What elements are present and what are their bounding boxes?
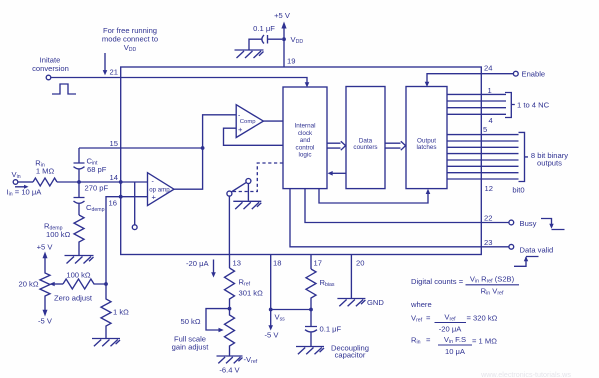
- svg-text:Rin Vref: Rin Vref: [481, 287, 504, 297]
- wire switch A to pin 13: [228, 196, 230, 254]
- svg-text:100 kΩ: 100 kΩ: [46, 230, 71, 239]
- svg-text:1: 1: [488, 86, 492, 95]
- arrowhead Iin: [24, 185, 29, 189]
- svg-text:0.1 μF: 0.1 μF: [253, 24, 275, 33]
- svg-text:+: +: [238, 125, 243, 134]
- arrowhead -5V pot: [43, 310, 48, 317]
- svg-text:Digital counts =: Digital counts =: [411, 277, 464, 286]
- wire pin 15 integrator feedback: [79, 147, 203, 149]
- svg-text:5: 5: [483, 125, 487, 134]
- svg-text:-5 V: -5 V: [38, 317, 53, 326]
- svg-text:18: 18: [273, 259, 281, 268]
- arrowhead -20uA: [211, 272, 216, 277]
- arrow Iin: [15, 186, 24, 188]
- wire busy external: [481, 222, 509, 224]
- wire pin 16 to op-amp plus: [121, 196, 148, 198]
- svg-text:logic: logic: [299, 152, 312, 159]
- block U3 output latches: [406, 87, 447, 189]
- svg-text:23: 23: [484, 238, 492, 247]
- svg-text:21: 21: [110, 68, 118, 77]
- svg-text:20 kΩ: 20 kΩ: [18, 280, 38, 289]
- node VDD top: [282, 37, 286, 41]
- node pin 16: [119, 195, 123, 199]
- svg-text:Vref: Vref: [411, 314, 423, 324]
- resistor Rbias: [306, 269, 316, 310]
- svg-text:Iin = 10 μA: Iin = 10 μA: [7, 188, 43, 198]
- ground 1k: [92, 339, 120, 347]
- node Vss: [269, 308, 273, 312]
- svg-text:Rin: Rin: [411, 336, 421, 346]
- pulse waveform symbol: [52, 84, 76, 94]
- bus arrow U2 to U3: [385, 141, 406, 150]
- waveform data valid rising edge: [514, 257, 539, 267]
- arrowhead +5V pot: [43, 252, 48, 259]
- wire counters to clock arrow: [331, 172, 346, 174]
- wire data valid external: [481, 246, 509, 248]
- wire comp plus input: [224, 128, 284, 145]
- ground 50k pot: [217, 356, 243, 363]
- svg-text:Rbias: Rbias: [320, 278, 335, 288]
- potentiometer 20k body: [40, 258, 50, 311]
- bus arrow U1 to U2: [327, 141, 346, 150]
- svg-text:-: -: [152, 179, 155, 186]
- svg-text:13: 13: [233, 259, 241, 268]
- resistor Rref 301k: [225, 268, 235, 309]
- svg-text:14: 14: [110, 173, 118, 182]
- svg-text:latches: latches: [417, 144, 437, 151]
- arrowhead latch into U3 bottom: [426, 189, 431, 194]
- svg-text:VDD: VDD: [124, 43, 137, 53]
- ground switch: [233, 201, 261, 209]
- svg-text:Vref: Vref: [444, 313, 456, 323]
- svg-text:22: 22: [484, 214, 492, 223]
- svg-text:17: 17: [314, 259, 322, 268]
- svg-text:= 1 MΩ: = 1 MΩ: [472, 337, 497, 346]
- svg-text:-20 μA: -20 μA: [186, 259, 209, 268]
- wire +5V supply to pin 19: [283, 26, 285, 67]
- svg-text:4: 4: [489, 116, 493, 125]
- svg-text:Internal: Internal: [294, 123, 315, 130]
- wire pin 20 GND: [350, 255, 352, 299]
- node A input: [77, 180, 81, 184]
- svg-text:1 MΩ: 1 MΩ: [36, 167, 55, 176]
- wire switch B to ground: [247, 184, 249, 201]
- svg-text:-5 V: -5 V: [265, 331, 280, 340]
- block U2 data counters: [346, 87, 385, 189]
- terminal below op-amp: [132, 225, 137, 230]
- arrowhead 50k wiper: [219, 328, 224, 333]
- node op-amp feedback: [201, 146, 205, 150]
- svg-text:Rref: Rref: [239, 278, 251, 288]
- svg-text:15: 15: [110, 139, 118, 148]
- svg-text:clock: clock: [298, 130, 313, 137]
- wire latch enable feedback: [319, 189, 428, 203]
- svg-text:Cdemp: Cdemp: [86, 203, 105, 213]
- wire test terminal drop: [134, 182, 136, 225]
- svg-text:-20 μA: -20 μA: [439, 325, 462, 334]
- wire busy internal pin 22: [305, 189, 481, 223]
- wire Vin input: [18, 181, 33, 183]
- wire Rin to pin 14: [57, 181, 148, 183]
- svg-text:16: 16: [109, 199, 117, 208]
- svg-text:Zero adjust: Zero adjust: [54, 294, 93, 303]
- svg-text:outputs: outputs: [537, 159, 562, 168]
- bracket 8 bit binary outputs: [519, 132, 529, 181]
- resistor Rin 1M: [33, 178, 57, 186]
- svg-text:Vin Rref (S2B): Vin Rref (S2B): [470, 275, 515, 285]
- resistor Rdemp 100k: [74, 215, 84, 255]
- svg-text:24: 24: [484, 64, 492, 73]
- svg-text:0.1 μF: 0.1 μF: [320, 325, 342, 334]
- chip outline box: [121, 67, 482, 255]
- terminal Initiate conversion: [46, 75, 51, 80]
- wire pin21 initiate conversion: [51, 78, 307, 85]
- wire 50k wiper loop: [206, 309, 230, 330]
- svg-text:68 pF: 68 pF: [87, 165, 107, 174]
- wire enable internal to latches: [427, 74, 481, 85]
- svg-text:Vin F.S: Vin F.S: [444, 335, 466, 345]
- wire comp minus input: [174, 115, 236, 189]
- svg-text:GND: GND: [367, 298, 384, 307]
- svg-text:Busy: Busy: [520, 219, 537, 228]
- svg-text:-Vref: -Vref: [244, 355, 258, 365]
- terminal Enable: [513, 71, 518, 76]
- svg-text:Enable: Enable: [522, 70, 546, 79]
- bracket 1 to 4 NC: [505, 93, 515, 118]
- node Rbias bottom: [309, 308, 313, 312]
- svg-text:+5 V: +5 V: [37, 243, 54, 252]
- svg-text:Vss: Vss: [275, 313, 286, 323]
- wire zero adjust wiper: [54, 283, 63, 285]
- svg-text:1 kΩ: 1 kΩ: [113, 308, 129, 317]
- svg-text:Comp: Comp: [240, 119, 256, 125]
- svg-text:control: control: [296, 144, 315, 151]
- svg-text:Vin: Vin: [12, 170, 21, 180]
- svg-text:mode connect to: mode connect to: [102, 35, 158, 44]
- svg-text:-6.4 V: -6.4 V: [219, 366, 240, 375]
- wire pin 16 external: [106, 197, 121, 284]
- svg-text:bit0: bit0: [512, 186, 524, 195]
- wire free running arrow: [104, 53, 106, 71]
- comparator U4: [236, 105, 263, 138]
- arrowhead counters to clock: [328, 171, 333, 176]
- block U1 internal clock and control logic: [283, 87, 327, 189]
- switch S1 arm: [231, 182, 246, 192]
- svg-text:capacitor: capacitor: [335, 351, 366, 360]
- wire pin 18 Vss: [270, 255, 272, 310]
- arrow Vss -5V line: [270, 310, 272, 327]
- capacitor 0.1uF top: [249, 35, 282, 50]
- ground top cap: [235, 50, 264, 58]
- arrow -20uA line: [213, 260, 215, 274]
- svg-text:+5 V: +5 V: [274, 11, 291, 20]
- fraction bar digital counts: [466, 284, 520, 286]
- svg-text:50 kΩ: 50 kΩ: [180, 317, 200, 326]
- ground Rdemp: [65, 256, 94, 264]
- wire comp output: [263, 120, 283, 122]
- switch contact B: [246, 179, 251, 184]
- svg-text:10 μA: 10 μA: [445, 347, 466, 356]
- resistor 100k zero adjust: [63, 279, 106, 289]
- svg-text:20: 20: [356, 259, 364, 268]
- wire enable pin 24: [481, 73, 513, 75]
- svg-text:conversion: conversion: [32, 64, 69, 73]
- wire pin 13 to Rref: [229, 255, 231, 269]
- wire Vss to Rbias node: [271, 309, 311, 311]
- svg-text:19: 19: [287, 57, 295, 66]
- capacitor Cdemp 270pF: [74, 182, 85, 215]
- arrowhead data valid waveform: [524, 256, 528, 261]
- terminal Data valid: [509, 244, 514, 249]
- potentiometer 50k body: [225, 309, 235, 356]
- terminal Vin: [13, 180, 18, 185]
- svg-text:100 kΩ: 100 kΩ: [66, 271, 91, 280]
- dashed control line to switch: [232, 163, 283, 192]
- svg-text:gain adjust: gain adjust: [172, 343, 210, 352]
- ground decoupling: [296, 347, 324, 355]
- svg-text:=: =: [426, 336, 431, 345]
- svg-text:www.electronics-tutorials.ws: www.electronics-tutorials.ws: [480, 370, 571, 378]
- op-amp U5: [148, 173, 175, 206]
- resistor 1k: [101, 284, 111, 338]
- arrowhead busy waveform: [549, 224, 553, 229]
- svg-text:and: and: [300, 137, 311, 144]
- svg-text:12: 12: [485, 184, 493, 193]
- fraction bar Vref: [435, 322, 467, 324]
- arrowhead into U1 top: [305, 82, 310, 87]
- svg-text:Data valid: Data valid: [520, 246, 554, 255]
- svg-text:= 320 kΩ: = 320 kΩ: [467, 314, 498, 323]
- svg-text:=: =: [426, 314, 431, 323]
- fraction bar Rin: [438, 344, 472, 346]
- node zero adjust: [104, 282, 108, 286]
- arrowhead enable into U3 top: [425, 82, 430, 87]
- waveform busy falling edge: [541, 219, 565, 230]
- capacitor 0.1uF decoupling: [305, 310, 317, 347]
- wire data valid internal pin 23: [290, 189, 481, 247]
- wire output lines 5-12: [447, 135, 519, 179]
- capacitor Cint 68pF: [74, 148, 85, 182]
- node pin 14: [119, 180, 123, 184]
- svg-text:VDD: VDD: [291, 35, 304, 45]
- arrowhead free running: [103, 70, 108, 75]
- wire NC pin lines 1-4: [447, 94, 506, 114]
- arrowhead +5V supply: [281, 22, 286, 29]
- svg-text:counters: counters: [353, 144, 377, 151]
- wire pin 17 to Rbias: [310, 255, 312, 270]
- svg-text:1 to 4 NC: 1 to 4 NC: [517, 101, 550, 110]
- terminal Busy: [509, 220, 514, 225]
- svg-text:+: +: [152, 193, 157, 202]
- svg-text:270 pF: 270 pF: [85, 184, 109, 193]
- arrowhead Vss: [268, 325, 273, 330]
- svg-text:where: where: [410, 300, 432, 309]
- svg-text:301 kΩ: 301 kΩ: [239, 289, 264, 298]
- switch contact A: [227, 191, 232, 196]
- ground GND pin20: [337, 299, 365, 307]
- node Rref bottom: [228, 307, 232, 311]
- arrowhead zero adjust wiper: [50, 282, 55, 287]
